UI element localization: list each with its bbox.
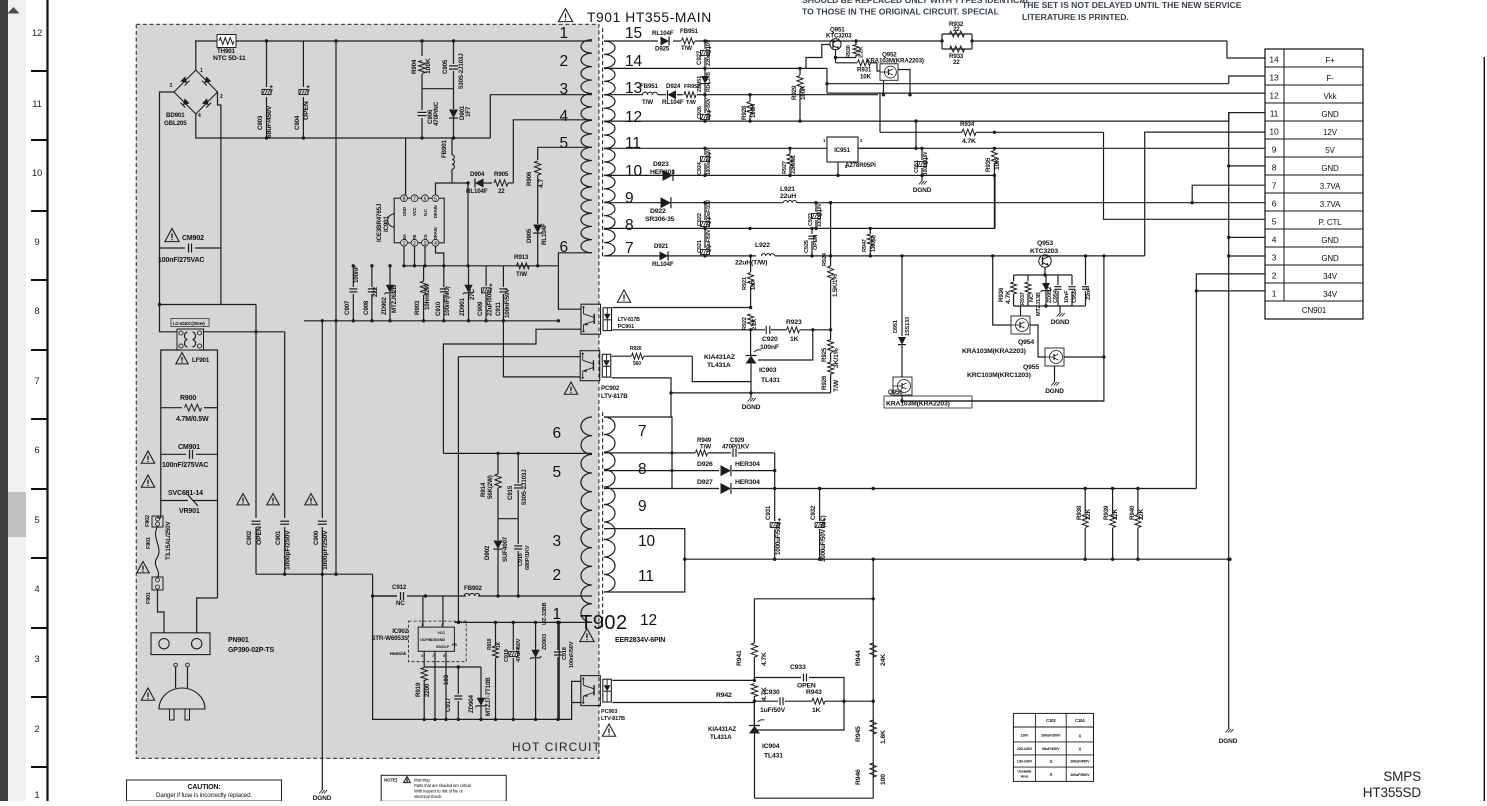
zener ZD904 xyxy=(457,665,492,719)
svg-text:9: 9 xyxy=(34,237,39,248)
ground DGND C951 xyxy=(913,175,932,194)
resistor R945 xyxy=(855,720,887,744)
capacitor C917 xyxy=(424,667,462,719)
IC901 box xyxy=(376,195,444,247)
svg-text:Unstable: Unstable xyxy=(1017,770,1031,774)
svg-text:8: 8 xyxy=(1272,163,1277,173)
svg-text:C932: C932 xyxy=(810,505,817,520)
wire PC901 anode row xyxy=(612,307,750,309)
svg-text:OPEN: OPEN xyxy=(813,235,819,250)
resistor R918 xyxy=(487,622,502,719)
svg-text:470P/NC: 470P/NC xyxy=(433,101,440,126)
capacitor C911 xyxy=(495,266,511,321)
svg-text:12: 12 xyxy=(640,612,657,629)
svg-text:HER303: HER303 xyxy=(650,169,675,176)
capacitor C921 xyxy=(697,228,712,256)
capacitor CM901 xyxy=(161,444,218,469)
svg-text:GND: GND xyxy=(1321,110,1339,119)
svg-text:R929: R929 xyxy=(791,85,798,100)
wire P.CTL to pin5 xyxy=(1104,132,1266,219)
svg-text:1: 1 xyxy=(34,790,39,801)
svg-text:D922: D922 xyxy=(650,208,666,215)
wire rail 598 R941 xyxy=(754,597,875,600)
wire PC901 base hot xyxy=(558,266,581,309)
schematic frame right border xyxy=(1483,57,1485,801)
svg-text:R934: R934 xyxy=(960,121,975,128)
svg-text:100nF(NC): 100nF(NC) xyxy=(444,286,451,316)
wire Q953 emitter xyxy=(1044,267,1046,275)
svg-text:11: 11 xyxy=(32,99,42,110)
svg-text:R913: R913 xyxy=(514,254,529,261)
svg-text:12V: 12V xyxy=(1323,128,1338,137)
svg-text:13: 13 xyxy=(1269,73,1279,83)
svg-text:C916: C916 xyxy=(518,553,524,566)
svg-text:C902: C902 xyxy=(246,530,253,545)
resistor R947 xyxy=(862,228,877,257)
wire TL431b column xyxy=(753,701,755,798)
fuse F902 xyxy=(145,515,163,527)
diode D924 xyxy=(662,83,684,106)
svg-text:1K: 1K xyxy=(812,707,821,714)
svg-text:ZD902: ZD902 xyxy=(381,296,388,315)
viewer left dark bar xyxy=(0,0,8,801)
svg-text:R945: R945 xyxy=(855,726,862,742)
svg-text:C951: C951 xyxy=(914,160,920,173)
viewer scrollbar thumb xyxy=(8,492,26,537)
wire 34V pin1 xyxy=(1195,289,1265,292)
wire bridge right down xyxy=(158,92,221,306)
mains plug xyxy=(159,663,205,720)
svg-text:R906: R906 xyxy=(526,171,533,186)
warning triangle VR901 xyxy=(141,475,154,487)
svg-text:530S-2J103J: 530S-2J103J xyxy=(521,469,528,505)
svg-text:4: 4 xyxy=(1272,235,1277,245)
svg-text:D921: D921 xyxy=(654,243,669,250)
svg-text:With respect to risk of fire o: With respect to risk of fire or xyxy=(414,789,464,794)
capacitor C951 xyxy=(914,148,929,175)
svg-text:NC: NC xyxy=(1029,294,1035,302)
capacitor C901 xyxy=(275,332,292,574)
wire LF901 right top to columns xyxy=(204,330,285,333)
svg-text:C927: C927 xyxy=(696,50,703,65)
T902 secondary pin labels xyxy=(638,423,657,629)
resistor R936 xyxy=(998,275,1017,306)
svg-text:1000uF/10V: 1000uF/10V xyxy=(706,148,712,175)
svg-text:R914: R914 xyxy=(480,482,487,497)
svg-text:STR-W6053S: STR-W6053S xyxy=(371,635,408,642)
ferrite bead FB901 xyxy=(441,139,454,183)
wire R944 column top xyxy=(872,559,874,798)
transformer T902 primary winding xyxy=(581,417,592,622)
T902 winding boxes xyxy=(604,417,685,592)
viewer scrollbar up arrow xyxy=(8,7,20,14)
transistor Q955 xyxy=(967,348,1064,379)
svg-text:4: 4 xyxy=(560,108,569,125)
svg-text:C931: C931 xyxy=(765,505,772,520)
svg-text:2: 2 xyxy=(553,567,561,584)
svg-text:8: 8 xyxy=(625,217,633,234)
svg-text:DGND: DGND xyxy=(1051,319,1070,326)
svg-text:F902: F902 xyxy=(145,515,151,527)
wire C912 row xyxy=(371,574,397,598)
svg-text:Q955: Q955 xyxy=(1023,364,1039,371)
svg-text:C922: C922 xyxy=(697,213,703,226)
frame row numbers xyxy=(32,28,42,801)
diode D922 xyxy=(645,197,675,223)
wire Q956 bottom rail xyxy=(902,400,1104,402)
svg-text:100uF/500V: 100uF/500V xyxy=(1070,773,1090,777)
wire IC902 vcc xyxy=(442,596,444,627)
wire centertap up to DGND rail xyxy=(994,175,996,228)
svg-text:9: 9 xyxy=(638,498,646,515)
svg-text:HT355SD: HT355SD xyxy=(1363,785,1422,800)
svg-text:OPEN: OPEN xyxy=(256,526,263,545)
diode D951 xyxy=(893,256,911,377)
svg-text:100nF: 100nF xyxy=(353,265,360,283)
svg-text:4: 4 xyxy=(198,113,201,119)
svg-text:electrical shock.: electrical shock. xyxy=(414,794,442,799)
wire GND rail to pin11 xyxy=(703,113,1265,123)
warning triangle PC902 xyxy=(564,382,577,394)
wire Q955 right vertical xyxy=(940,256,1104,401)
svg-text:R903: R903 xyxy=(414,300,421,315)
resistor R904 xyxy=(411,39,432,88)
svg-text:100K: 100K xyxy=(425,58,432,74)
wire TL431 cathode xyxy=(750,330,752,356)
svg-text:X: X xyxy=(1049,772,1052,777)
svg-text:SUF4007: SUF4007 xyxy=(502,536,509,562)
svg-text:7: 7 xyxy=(1272,181,1277,191)
svg-text:SHOULD BE REPLACED ONLY WITH T: SHOULD BE REPLACED ONLY WITH TYPES IDENT… xyxy=(802,0,1031,5)
resistor R946 xyxy=(855,763,887,785)
svg-text:10: 10 xyxy=(638,533,655,550)
thermistor TH901 xyxy=(213,35,246,63)
wire dgnd rail 392 xyxy=(669,391,830,394)
svg-text:T/W: T/W xyxy=(700,444,711,451)
resistor R927 xyxy=(782,147,797,177)
warning triangle T902 xyxy=(580,629,594,642)
svg-text:D924: D924 xyxy=(666,83,681,90)
svg-text:C912: C912 xyxy=(392,584,407,591)
svg-text:IC901: IC901 xyxy=(383,216,390,232)
warning triangle PC903 xyxy=(602,724,615,736)
wire rail Vkk to pin12 xyxy=(827,92,1265,94)
frame row ticks xyxy=(31,71,47,767)
svg-text:11: 11 xyxy=(1270,109,1279,119)
svg-text:NOTE): NOTE) xyxy=(384,778,398,783)
svg-text:IC951: IC951 xyxy=(834,147,850,154)
wire bridge bottom rail xyxy=(196,114,491,138)
capacitor C919 xyxy=(504,622,522,719)
svg-text:IC904: IC904 xyxy=(762,743,780,750)
svg-text:2: 2 xyxy=(34,724,39,735)
warning triangle C900 xyxy=(305,494,317,505)
svg-text:4: 4 xyxy=(34,584,39,595)
wire rail392 left corner to T902 xyxy=(670,393,672,417)
wire R913 row xyxy=(514,254,530,278)
svg-text:47uF/50V: 47uF/50V xyxy=(706,97,712,119)
svg-text:Q956: Q956 xyxy=(888,389,903,396)
transformer T902 core xyxy=(602,412,604,630)
svg-text:R943: R943 xyxy=(806,689,822,696)
inductor L921 xyxy=(780,186,797,203)
warning triangle CM901 a xyxy=(141,451,154,463)
svg-text:R940: R940 xyxy=(1129,505,1136,520)
resistor R938 xyxy=(1076,489,1092,560)
svg-text:R947: R947 xyxy=(862,239,868,252)
svg-text:R905: R905 xyxy=(494,171,509,178)
svg-text:KIA431AZ: KIA431AZ xyxy=(708,726,736,733)
svg-text:IC903: IC903 xyxy=(759,367,777,374)
wire pin8 gnd stub xyxy=(1229,165,1265,167)
svg-text:100uF/200V: 100uF/200V xyxy=(1041,734,1061,738)
ferrite bead FB902 xyxy=(464,585,483,596)
svg-text:10: 10 xyxy=(625,163,642,180)
svg-text:100uF/450V: 100uF/450V xyxy=(1070,760,1090,764)
line filter LF901 xyxy=(171,319,210,365)
svg-text:LF901: LF901 xyxy=(192,357,210,364)
diode D921 xyxy=(652,243,674,268)
svg-text:RD4.3TB: RD4.3TB xyxy=(706,72,712,92)
wire pin7 3.7VA step xyxy=(1192,185,1265,203)
svg-text:FB901: FB901 xyxy=(441,139,448,158)
svg-text:FB951: FB951 xyxy=(640,83,659,90)
resistor R926 xyxy=(821,362,840,393)
optocoupler PC901 xyxy=(581,304,640,334)
wire IC951 out xyxy=(858,147,922,149)
svg-text:12: 12 xyxy=(1269,91,1279,101)
svg-text:12: 12 xyxy=(32,28,42,39)
svg-text:R921: R921 xyxy=(742,277,748,290)
svg-text:LTV-817B: LTV-817B xyxy=(601,716,625,722)
connector CN901 xyxy=(1265,49,1363,319)
zener ZD951 xyxy=(697,68,712,96)
svg-text:3: 3 xyxy=(1272,253,1277,263)
svg-text:100nF/275VAC: 100nF/275VAC xyxy=(158,257,204,264)
wire Q953 cluster box xyxy=(1014,304,1072,307)
ground DGND TL431 xyxy=(742,393,761,411)
svg-text:RL104F: RL104F xyxy=(652,30,674,37)
svg-text:5: 5 xyxy=(560,135,568,152)
resistor R914 xyxy=(480,453,501,518)
svg-text:330uF/10V: 330uF/10V xyxy=(817,203,823,227)
svg-text:1000uF/50V: 1000uF/50V xyxy=(775,521,782,555)
svg-text:15: 15 xyxy=(625,25,642,42)
svg-text:C903: C903 xyxy=(257,115,264,130)
wire 12V rail to pin10 xyxy=(1145,132,1265,256)
transistor Q952 xyxy=(866,52,924,81)
svg-text:D951: D951 xyxy=(893,320,899,333)
svg-text:F901: F901 xyxy=(146,537,152,549)
svg-text:T/W: T/W xyxy=(833,379,840,392)
svg-text:C954: C954 xyxy=(1053,289,1059,303)
resistor R903 xyxy=(414,266,431,321)
svg-text:222: 222 xyxy=(372,286,379,297)
svg-text:KRA103M(KRA2203): KRA103M(KRA2203) xyxy=(962,348,1026,355)
svg-text:C915: C915 xyxy=(507,485,514,500)
svg-text:22nF: 22nF xyxy=(1086,287,1092,300)
svg-text:180: 180 xyxy=(751,281,757,290)
svg-text:1F7: 1F7 xyxy=(465,106,472,117)
svg-text:1: 1 xyxy=(553,606,561,623)
svg-text:L921: L921 xyxy=(780,186,795,193)
wire rail 265 hot xyxy=(402,264,558,267)
svg-text:FB951: FB951 xyxy=(680,28,699,35)
capacitor C918 xyxy=(554,622,575,719)
wire C951 bottom xyxy=(920,174,996,177)
svg-text:DGND: DGND xyxy=(1219,738,1238,745)
svg-text:TH901: TH901 xyxy=(217,48,236,55)
connector PN901 xyxy=(151,633,275,655)
svg-text:T/W: T/W xyxy=(516,271,527,278)
hot circuit shaded region xyxy=(136,24,599,758)
svg-text:12: 12 xyxy=(625,109,642,126)
svg-text:FB: FB xyxy=(452,643,457,647)
svg-text:ZD904: ZD904 xyxy=(468,694,475,713)
resistor R906 xyxy=(526,161,545,224)
svg-text:9: 9 xyxy=(1272,145,1277,155)
wire PC903 cathode row xyxy=(612,702,754,704)
svg-text:D923: D923 xyxy=(653,161,669,168)
resistor R943 xyxy=(806,689,825,714)
note text paragraph 1 xyxy=(802,0,1031,17)
wire rail pin15 F+ xyxy=(604,39,1265,58)
svg-text:34V: 34V xyxy=(1323,272,1338,281)
resistor R905 xyxy=(494,171,513,195)
wire LF901 right down xyxy=(200,350,218,598)
svg-text:11: 11 xyxy=(638,568,654,585)
svg-text:C908: C908 xyxy=(363,300,370,315)
svg-text:D902: D902 xyxy=(484,545,491,560)
svg-text:Parts that are shaded are crit: Parts that are shaded are critical xyxy=(414,783,471,788)
svg-text:3: 3 xyxy=(34,654,39,665)
ground DGND hot bottom xyxy=(313,790,332,802)
svg-text:RL104F: RL104F xyxy=(662,99,684,106)
svg-text:22: 22 xyxy=(953,59,960,66)
svg-text:OCP/BD: OCP/BD xyxy=(420,638,434,642)
svg-text:R922: R922 xyxy=(742,317,748,330)
svg-text:X: X xyxy=(1078,734,1081,739)
svg-text:6: 6 xyxy=(560,239,568,256)
svg-text:5: 5 xyxy=(34,515,39,526)
svg-text:X: X xyxy=(1078,747,1081,752)
svg-text:P. CTL: P. CTL xyxy=(1319,218,1343,227)
ground DGND Q955 xyxy=(1051,382,1054,386)
wire PC901 emitter hot xyxy=(443,329,581,453)
wire FB901 column xyxy=(451,138,453,155)
svg-text:3.7VA: 3.7VA xyxy=(1320,182,1341,191)
svg-text:C924: C924 xyxy=(697,161,703,175)
svg-text:C909: C909 xyxy=(477,301,484,316)
svg-text:HER304: HER304 xyxy=(735,461,760,468)
svg-text:F901: F901 xyxy=(146,592,152,604)
svg-text:100uF/16V: 100uF/16V xyxy=(923,151,929,175)
svg-text:FR952: FR952 xyxy=(684,84,700,90)
wire IC951 gnd xyxy=(836,162,839,177)
svg-text:BA: BA xyxy=(402,234,407,240)
wire fuse to plug xyxy=(158,590,165,633)
T901 secondary pin labels xyxy=(625,25,642,257)
wire R923 to TL431 ref xyxy=(758,330,813,360)
svg-text:10: 10 xyxy=(1269,127,1279,137)
svg-text:OPEN: OPEN xyxy=(303,101,310,120)
wire D904 row xyxy=(452,181,470,184)
svg-text:R944: R944 xyxy=(855,650,862,666)
svg-text:GND: GND xyxy=(1321,236,1339,245)
wire IC902 right rail 622 xyxy=(455,621,561,624)
svg-text:LG-6240C(20mH): LG-6240C(20mH) xyxy=(173,321,205,326)
svg-text:22K: 22K xyxy=(1138,508,1145,520)
zener ZD902 xyxy=(381,264,398,321)
svg-text:GND: GND xyxy=(1321,254,1339,263)
resistor R937 xyxy=(1020,275,1035,306)
resistor R924 xyxy=(822,203,839,330)
svg-text:LTV-817B: LTV-817B xyxy=(618,317,640,323)
svg-text:X: X xyxy=(1049,759,1052,764)
svg-text:TL431A: TL431A xyxy=(707,362,731,369)
wire pin3 step xyxy=(490,95,592,138)
capacitor C907 xyxy=(344,264,360,321)
svg-text:C901: C901 xyxy=(275,530,282,545)
resistor R941 xyxy=(736,599,768,681)
svg-text:22K: 22K xyxy=(1112,508,1119,520)
svg-text:100nF: 100nF xyxy=(760,344,779,351)
svg-text:100uF/50V: 100uF/50V xyxy=(706,229,712,253)
svg-text:C921: C921 xyxy=(697,240,703,253)
diode D905 xyxy=(526,223,548,266)
svg-text:KRA103M(KRA2203): KRA103M(KRA2203) xyxy=(866,58,924,65)
svg-text:C919: C919 xyxy=(504,649,510,662)
shunt regulator IC904 TL431 xyxy=(708,720,783,760)
inductor L922 xyxy=(735,242,775,267)
svg-text:C955: C955 xyxy=(1072,290,1078,303)
wire T902 pin1 xyxy=(559,622,592,719)
svg-text:ICE3BR4765J: ICE3BR4765J xyxy=(376,203,383,242)
svg-text:1000pF/250V: 1000pF/250V xyxy=(322,530,329,570)
capacitor C925 xyxy=(804,227,819,258)
wire Q951 base xyxy=(806,45,830,69)
wire rail 559 xyxy=(683,558,1232,561)
wire rail pin11 T901 stub xyxy=(604,147,827,149)
optocoupler PC902 xyxy=(580,351,628,400)
svg-text:14: 14 xyxy=(1269,55,1279,65)
resistor R922 xyxy=(742,314,758,330)
capacitor C933 branch xyxy=(754,664,844,701)
svg-text:LITERATURE IS PRINTED.: LITERATURE IS PRINTED. xyxy=(1022,12,1129,22)
svg-text:C926: C926 xyxy=(697,106,703,119)
resistor R929 xyxy=(791,68,807,122)
svg-text:TO THOSE IN THE ORIGINAL CIRCU: TO THOSE IN THE ORIGINAL CIRCUIT. SPECIA… xyxy=(802,7,999,17)
svg-text:7: 7 xyxy=(34,376,39,387)
svg-text:Area: Area xyxy=(1021,775,1030,779)
svg-text:Q954: Q954 xyxy=(1018,339,1034,346)
svg-text:A278R05PI: A278R05PI xyxy=(845,162,876,169)
wire IC902 drain xyxy=(422,596,424,627)
diode D925 xyxy=(652,30,674,53)
svg-text:R930: R930 xyxy=(846,45,852,58)
svg-text:4.7K: 4.7K xyxy=(962,138,976,145)
svg-text:DGND: DGND xyxy=(1045,388,1064,395)
svg-text:CN901: CN901 xyxy=(1302,306,1327,315)
resistor R949 symbol xyxy=(696,450,708,456)
capacitor C900 xyxy=(313,321,329,574)
svg-text:Vkk: Vkk xyxy=(1324,92,1338,101)
svg-text:3: 3 xyxy=(553,533,561,550)
wire hot bottom rail xyxy=(304,319,560,322)
resistor R925 xyxy=(821,330,840,368)
capacitor C924 xyxy=(697,147,712,177)
svg-text:3.7VA: 3.7VA xyxy=(1320,200,1341,209)
